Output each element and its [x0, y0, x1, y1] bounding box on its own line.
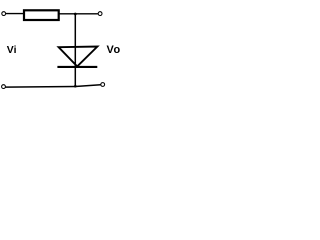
- junction node bottom: [74, 85, 77, 88]
- label Vi input voltage: [7, 45, 17, 56]
- diode D1 zener anode triangle: [59, 47, 98, 67]
- terminal common bottom-right: [101, 83, 105, 87]
- wire input to resistor: [6, 13, 24, 15]
- wire bottom rail left: [6, 86, 76, 89]
- wire bottom rail right: [75, 85, 100, 87]
- wire resistor to output terminal: [59, 13, 98, 15]
- terminal output top-right: [98, 12, 102, 16]
- label Vo output voltage: [107, 44, 121, 56]
- terminal input top-left: [2, 12, 6, 16]
- terminal common bottom-left: [2, 85, 6, 89]
- diode D1 zener cathode bar: [57, 66, 97, 68]
- junction node top: [74, 13, 77, 16]
- resistor R (series box): [24, 10, 59, 20]
- wire vertical through diode: [74, 14, 76, 86]
